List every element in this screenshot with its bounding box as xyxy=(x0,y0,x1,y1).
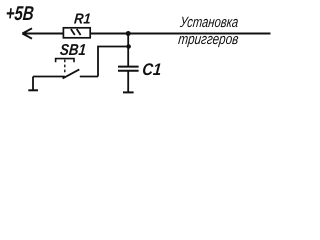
svg-text:SB1: SB1 xyxy=(59,42,86,59)
wire: switch branch horizontal then vertical riser xyxy=(98,47,128,77)
capacitor C1 xyxy=(118,67,139,71)
resistor R1 xyxy=(63,28,90,38)
svg-text:R1: R1 xyxy=(73,11,91,27)
wire: capacitor to ground xyxy=(127,71,129,93)
net label: Установка триггеров xyxy=(177,14,239,48)
label SB1 xyxy=(59,42,86,59)
node A: junction dot on main rail xyxy=(126,31,131,36)
ground (under capacitor) xyxy=(123,91,134,93)
label C1 xyxy=(142,60,163,79)
label R1 xyxy=(73,11,91,27)
wire: vertical drop from rail junction to capacitor xyxy=(127,34,129,67)
wire: main rail from arrow through R1 to line end xyxy=(22,33,270,35)
wire: from left ground corner to left switch contact xyxy=(33,76,65,78)
svg-text:Установка: Установка xyxy=(179,14,240,31)
svg-text:+5В: +5В xyxy=(5,3,35,25)
wire: from right switch contact to riser xyxy=(80,76,98,78)
svg-text:C1: C1 xyxy=(142,60,163,79)
pushbutton SB1 xyxy=(56,59,80,79)
ground (left, under switch) xyxy=(28,77,38,91)
node B: junction dot where switch branch joins xyxy=(126,44,131,49)
supply arrow xyxy=(22,28,32,38)
svg-text:триггеров: триггеров xyxy=(177,31,239,48)
+5V supply label xyxy=(5,3,35,25)
